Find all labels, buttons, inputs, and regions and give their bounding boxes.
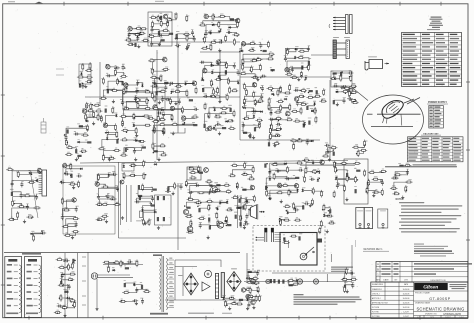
- value label: [237, 195, 240, 198]
- resistor R163: [171, 124, 179, 126]
- wire: [158, 115, 163, 119]
- circuit cluster output filter: [0, 0, 1, 1]
- drawing note text block: [429, 17, 443, 29]
- svg-text:POWER SUPPLY: POWER SUPPLY: [428, 101, 447, 104]
- svg-text:DESCRIPTION: DESCRIPTION: [431, 280, 446, 282]
- winding: [66, 284, 69, 308]
- value label: [215, 212, 218, 215]
- capacitor C53: [276, 123, 282, 126]
- chassis tick: [82, 295, 86, 297]
- wire: [289, 190, 298, 193]
- value label: [152, 79, 156, 82]
- wire: [245, 85, 255, 87]
- value label: [168, 30, 170, 33]
- resistor R1: [135, 27, 143, 29]
- junction: [31, 174, 32, 175]
- junction: [240, 197, 241, 198]
- junction: [236, 186, 237, 187]
- resistor R240: [322, 155, 330, 157]
- junction: [148, 118, 149, 119]
- transformer winding T1: [19, 265, 21, 313]
- resistor R308: [225, 191, 233, 193]
- wire: [337, 91, 346, 93]
- wire: [336, 163, 358, 170]
- circuit cluster line filter: [0, 0, 1, 1]
- wire: [62, 285, 69, 286]
- value label: [66, 126, 69, 129]
- resistor R243: [270, 133, 272, 141]
- value label: [252, 195, 255, 198]
- value label: [266, 189, 268, 192]
- bias relay box: [187, 167, 201, 180]
- resistor R5: [125, 39, 133, 41]
- ground: [84, 85, 87, 88]
- ground: [207, 236, 210, 239]
- value label: [219, 71, 221, 74]
- wire: [191, 192, 229, 200]
- wire: [213, 16, 222, 19]
- value label: [141, 184, 143, 187]
- junction: [169, 18, 170, 19]
- wire: [326, 152, 334, 157]
- power supply title underline: [427, 103, 448, 105]
- capacitor C32: [121, 100, 124, 106]
- wire: [212, 72, 219, 75]
- capacitor C51: [270, 110, 273, 116]
- junction: [117, 189, 118, 190]
- wire: [137, 198, 153, 202]
- wire: [271, 107, 290, 112]
- capacitor C69: [75, 206, 78, 212]
- box: [356, 208, 364, 229]
- resistor R2: [140, 28, 148, 30]
- value label: [152, 127, 154, 130]
- resistor R60: [138, 185, 140, 189]
- wire: [103, 157, 111, 160]
- resistor R316: [185, 216, 193, 218]
- circuit cluster xfmr top parts: [0, 0, 1, 1]
- value label: [265, 182, 267, 185]
- output transformer table left: [5, 257, 22, 318]
- resistor R115: [80, 150, 88, 152]
- junction: [131, 43, 132, 44]
- value label: [293, 108, 296, 111]
- resistor R319: [216, 212, 218, 220]
- value label: [317, 176, 320, 179]
- resistor R88: [151, 85, 159, 87]
- resistor R298: [198, 165, 200, 173]
- resistor R41: [248, 49, 256, 51]
- section divider line: [4, 251, 240, 253]
- wire: [187, 37, 194, 39]
- resistor R374: [357, 149, 359, 157]
- value label: [346, 169, 349, 172]
- resistor R320: [225, 216, 227, 224]
- value label: [125, 86, 128, 89]
- wire: [303, 189, 314, 192]
- junction: [145, 174, 146, 175]
- value label: [188, 213, 192, 216]
- value label: [148, 218, 152, 221]
- value label: [300, 107, 302, 110]
- junction: [85, 120, 86, 121]
- resistor R290: [153, 189, 157, 191]
- resistor R326: [231, 165, 239, 167]
- circuit cluster relay parts: [0, 0, 1, 1]
- wire: [367, 182, 382, 191]
- wire: [62, 266, 69, 269]
- wire: [155, 98, 163, 100]
- border zone tick: [1, 94, 5, 96]
- chassis tick: [82, 256, 86, 258]
- resistor R100: [90, 102, 92, 110]
- circuit cluster PI stage: [0, 0, 1, 1]
- value label: [36, 193, 38, 196]
- value label: [354, 167, 357, 170]
- wire vertical x220: [219, 52, 221, 102]
- junction: [126, 88, 127, 89]
- resistor R83: [148, 60, 156, 62]
- value label: [237, 68, 239, 71]
- resistor R383: [354, 176, 356, 184]
- value label: [136, 192, 138, 195]
- wire: [240, 199, 247, 203]
- value label: [361, 147, 364, 150]
- wire: [153, 145, 163, 147]
- junction: [366, 191, 367, 192]
- value label: [88, 78, 91, 81]
- value label: [332, 161, 335, 164]
- junction: [171, 93, 172, 94]
- wire: [203, 72, 239, 80]
- wire: [288, 49, 297, 52]
- ground: [279, 127, 282, 130]
- value label: [72, 262, 75, 265]
- value label: [209, 188, 211, 191]
- value label: [241, 121, 244, 124]
- value label: [276, 140, 279, 143]
- jack plus mark: [359, 226, 362, 229]
- circuit cluster return parts: [0, 0, 1, 1]
- resistor R30: [218, 21, 220, 29]
- value label: [124, 136, 126, 139]
- junction: [159, 17, 160, 18]
- value label: [134, 147, 136, 150]
- wire: [152, 29, 159, 31]
- ground: [157, 158, 160, 161]
- value label: [182, 120, 185, 123]
- wire: [124, 109, 148, 117]
- power transformer T4: [162, 256, 164, 312]
- junction: [162, 131, 163, 132]
- border zone tick: [466, 81, 470, 83]
- junction: [137, 90, 138, 91]
- resistor R46: [255, 59, 263, 61]
- value label: [348, 95, 350, 98]
- diode D30: [213, 126, 215, 130]
- value label: [279, 189, 282, 192]
- value label: [219, 199, 223, 202]
- junction: [218, 76, 219, 77]
- ground: [108, 158, 111, 161]
- capacitor C63: [20, 193, 23, 199]
- resistor R37: [201, 47, 209, 49]
- diode D52: [296, 188, 298, 192]
- resistor R388: [404, 165, 412, 167]
- border zone tick: [205, 316, 207, 320]
- capacitor C67: [76, 175, 82, 178]
- capacitor C14: [261, 75, 267, 78]
- value label: [259, 121, 261, 124]
- wire: [97, 184, 105, 187]
- capacitor C71: [75, 222, 78, 228]
- svg-text:DRAWING NAME: DRAWING NAME: [415, 302, 431, 305]
- junction: [212, 84, 213, 85]
- wire: [203, 21, 238, 25]
- resistor R409: [60, 281, 62, 285]
- resistor R234: [346, 89, 354, 91]
- wire: [87, 117, 98, 121]
- resistor R155: [189, 99, 193, 101]
- wire: [22, 205, 28, 208]
- transistor Q9: [153, 105, 157, 109]
- resistor R28: [230, 18, 234, 20]
- op-amp U2: [136, 97, 141, 103]
- resistor R335: [253, 195, 255, 203]
- tap label: [7, 271, 18, 273]
- junction: [242, 106, 243, 107]
- circuit cluster drive stage: [0, 0, 1, 1]
- wire: [136, 140, 142, 141]
- capacitor C59: [306, 139, 309, 145]
- junction: [336, 177, 337, 178]
- resistor R105: [93, 111, 95, 119]
- resistor R272: [72, 218, 80, 220]
- value label: [324, 211, 327, 214]
- value label: [326, 148, 329, 151]
- value label: [308, 64, 311, 67]
- resistor R176: [209, 95, 217, 97]
- junction: [131, 166, 132, 167]
- resistor R91: [158, 119, 166, 121]
- wire: [277, 170, 287, 171]
- resistor R43: [267, 53, 275, 55]
- junction: [133, 125, 134, 126]
- value label: [277, 115, 279, 118]
- wire: [108, 67, 117, 68]
- junction: [269, 199, 270, 200]
- circuit cluster power amp core: [0, 0, 1, 1]
- value label: [243, 171, 246, 174]
- wire: [220, 70, 226, 75]
- value label: [212, 68, 215, 71]
- value label: [269, 168, 271, 171]
- connector J9: [41, 118, 46, 133]
- capacitor C12: [218, 41, 224, 44]
- wire: [350, 93, 354, 94]
- value label: [26, 202, 28, 205]
- junction: [111, 157, 112, 158]
- wire jog: [170, 128, 185, 133]
- footswitch jack outline: [331, 71, 352, 87]
- wire: [372, 172, 384, 173]
- junction: [286, 210, 287, 211]
- value label: [120, 98, 124, 101]
- value label: [218, 21, 221, 24]
- transistor Q18: [208, 126, 212, 130]
- value label: [279, 104, 281, 107]
- resistor R257: [28, 181, 36, 183]
- resistor R346: [271, 164, 279, 166]
- value label: [73, 301, 77, 304]
- value label: [294, 206, 297, 209]
- resistor R226: [311, 110, 315, 112]
- capacitor C13: [259, 43, 262, 49]
- wire: [190, 185, 227, 192]
- svg-text:Gibson: Gibson: [423, 286, 438, 291]
- value label: [115, 64, 117, 67]
- resistor R199: [259, 121, 261, 129]
- value label: [342, 185, 346, 188]
- value label: [165, 13, 169, 16]
- value label: [320, 158, 323, 161]
- value label: [71, 270, 74, 273]
- resistor R92: [154, 126, 156, 134]
- resistor R416: [74, 301, 76, 309]
- wire: [216, 184, 227, 186]
- value label: [179, 182, 183, 185]
- junction: [149, 34, 150, 35]
- diode D56: [317, 178, 319, 182]
- junction: [100, 118, 101, 119]
- value label: [323, 204, 326, 207]
- wire: [100, 199, 113, 205]
- value label: [63, 304, 66, 307]
- value label: [117, 78, 119, 81]
- resistor R125: [113, 149, 121, 151]
- value label: [380, 210, 386, 213]
- wire: [294, 204, 304, 207]
- circuit cluster EQ stage C: [0, 0, 1, 1]
- resistor R381: [356, 170, 360, 172]
- value label: [275, 132, 278, 135]
- resistor R315: [226, 209, 234, 211]
- value label: [330, 219, 333, 222]
- value label: [153, 82, 156, 85]
- wire: [155, 120, 163, 130]
- resistor R137: [122, 120, 124, 128]
- capacitor C90: [298, 169, 304, 172]
- value label: [339, 74, 342, 77]
- ground: [303, 123, 306, 126]
- circuit cluster output jack wiring: [0, 0, 1, 1]
- value label: [165, 66, 168, 69]
- circuit cluster sense parts: [0, 0, 1, 1]
- value label: [176, 88, 179, 91]
- junction: [98, 219, 99, 220]
- wire: [153, 16, 161, 18]
- circuit cluster jack wiring: [0, 0, 1, 1]
- value label: [60, 271, 63, 274]
- resistor R148: [156, 91, 158, 95]
- value label: [209, 29, 212, 32]
- value label: [277, 89, 280, 92]
- value label: [279, 86, 281, 89]
- diode D17: [133, 123, 135, 127]
- resistor R399: [372, 178, 380, 180]
- value label: [313, 100, 316, 103]
- capacitor C101: [66, 297, 72, 300]
- junction: [248, 135, 249, 136]
- resistor R3: [134, 34, 142, 36]
- junction: [278, 120, 279, 121]
- wire: [152, 34, 169, 44]
- wire: [178, 92, 188, 94]
- value label: [190, 220, 192, 223]
- wire rail x120.5: [120, 180, 122, 225]
- wire ground drop: [96, 279, 98, 307]
- value label: [185, 31, 189, 34]
- wire: [289, 68, 308, 75]
- value label: [295, 186, 299, 189]
- voltage chart table: [402, 33, 462, 87]
- value label: [250, 184, 252, 187]
- capacitor C89: [275, 170, 281, 173]
- wire: [171, 83, 179, 86]
- junction: [36, 180, 37, 181]
- resistor R63: [333, 72, 337, 74]
- value label: [61, 179, 64, 182]
- resistor R76: [102, 77, 104, 85]
- capacitor C54: [294, 89, 300, 92]
- value label: [274, 161, 277, 164]
- junction: [255, 103, 256, 104]
- resistor R36: [233, 38, 235, 46]
- wire: [243, 54, 271, 62]
- wire: [105, 125, 115, 127]
- resistor R422: [108, 265, 110, 273]
- resistor R31: [236, 21, 238, 29]
- junction: [71, 280, 72, 281]
- svg-text:A: A: [377, 262, 379, 266]
- resistor R35: [225, 35, 227, 43]
- value label: [196, 182, 198, 185]
- capacitor C52: [269, 118, 275, 121]
- wire: [235, 165, 245, 167]
- wire: [210, 224, 218, 226]
- resistor R202: [267, 87, 275, 89]
- wire: [193, 172, 199, 174]
- transistor Q25: [95, 182, 99, 186]
- junction: [314, 173, 315, 174]
- value label: [353, 99, 355, 102]
- junction: [272, 70, 273, 71]
- value label: [123, 162, 125, 165]
- value label: [60, 281, 62, 284]
- ground: [243, 226, 246, 229]
- value label: [107, 63, 110, 66]
- junction: [208, 116, 209, 117]
- resistor R111: [65, 139, 67, 147]
- resistor R368: [326, 215, 334, 217]
- value label: [150, 67, 152, 70]
- wire: [66, 128, 88, 137]
- junction: [294, 207, 295, 208]
- wire: [243, 133, 250, 134]
- wire: [115, 72, 123, 76]
- value label: [227, 77, 229, 80]
- junction: [407, 166, 408, 167]
